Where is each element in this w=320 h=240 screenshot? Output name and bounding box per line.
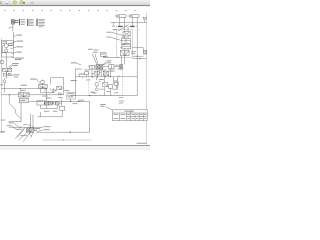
node RB1 j2 <box>140 58 141 59</box>
label V3 top <box>107 31 112 34</box>
gauge G2 <box>95 88 98 91</box>
legend table 1 rows <box>21 19 26 25</box>
divider TB1 <box>67 94 76 96</box>
wire manifold leaders <box>11 123 19 130</box>
wire V2 feeders <box>31 114 33 127</box>
node MV j1 <box>92 76 93 77</box>
label W2 <box>42 95 47 98</box>
label TB1 top <box>64 89 69 92</box>
label MV a <box>78 73 85 76</box>
wire MV riser <box>75 68 77 95</box>
toolbar icon: zoom-out yellow <box>13 1 16 4</box>
valve stack V3 enclosure <box>117 29 133 57</box>
label bank callout 3 <box>93 51 98 54</box>
node V2 j2 <box>30 127 31 128</box>
gauge G1 <box>95 82 99 86</box>
wire leader 5 <box>11 57 15 58</box>
label bank callout 5 <box>107 61 111 64</box>
label PT1 cells row1 <box>114 113 147 116</box>
valve V1 body2 <box>7 68 12 71</box>
label SV1 inner <box>20 99 25 102</box>
label PT1 cells row2 <box>114 117 147 120</box>
wire V2 tails <box>15 127 30 141</box>
label S1 <box>20 134 26 137</box>
valve stack V3 box1 <box>123 32 130 36</box>
valve VX1a <box>45 101 49 105</box>
node bus ticks <box>79 75 119 79</box>
label callout 1 <box>17 34 22 37</box>
label V2 mid <box>35 127 39 130</box>
toolbar icon: open (partial) <box>0 1 2 4</box>
toolbar icon: print gray <box>30 1 33 4</box>
gauge G3 <box>99 70 101 72</box>
valve MV g <box>115 82 119 85</box>
wire left drop <box>9 95 21 119</box>
label W1 <box>30 78 36 81</box>
valve W2 <box>57 86 62 90</box>
label V2 right b <box>44 128 50 131</box>
wire SV1 top <box>1 91 63 122</box>
valve V6 <box>108 85 112 88</box>
label MV e <box>90 91 95 94</box>
node F1 j2 <box>46 88 47 89</box>
label callout 5 <box>15 57 24 60</box>
page bottom edge <box>0 145 150 146</box>
valve P1b <box>9 43 12 46</box>
drawing frame top zone ticks <box>4 9 136 11</box>
valve W3 arrow <box>59 93 62 95</box>
drawing frame left border <box>0 38 2 133</box>
wire V1 leaders <box>8 64 12 69</box>
main block MV dashed enclosure <box>89 70 123 96</box>
toolbar <box>0 0 150 5</box>
node A1 label <box>9 26 11 29</box>
hose bundle H1 <box>112 26 138 28</box>
valve V1 arrows <box>3 68 12 71</box>
valve V3 box2 detail <box>122 38 131 43</box>
wire C1 drops <box>119 17 137 22</box>
valve W1 pilots <box>41 81 44 84</box>
relief valve RV2 <box>95 71 100 75</box>
label MV b <box>71 79 77 82</box>
port block PB1 <box>1 60 4 63</box>
solenoid SV2 <box>109 65 114 69</box>
wire leader 1 <box>13 35 16 37</box>
label V1 pilot <box>14 76 18 79</box>
valve V1 body <box>3 68 8 71</box>
wire V2 leaders right <box>37 127 43 132</box>
wire left link <box>44 89 89 102</box>
label H1 <box>113 28 118 31</box>
wire bank drops <box>92 69 111 77</box>
valve MV f <box>85 72 89 75</box>
label link b <box>73 102 78 105</box>
label F2 <box>115 64 119 67</box>
wire MV bottom bus <box>70 95 137 97</box>
label V2 right a <box>44 125 50 128</box>
port V2 p1 <box>34 129 36 131</box>
valve V1 pilot b <box>8 73 11 75</box>
label manifold callout a <box>9 121 14 124</box>
label PT1 title <box>124 110 134 113</box>
wire stack feed <box>103 56 120 57</box>
node return junction <box>63 139 64 140</box>
label V2 top tags <box>23 123 27 126</box>
toolbar icon: save page <box>5 1 9 5</box>
coupler block RB1 <box>143 50 146 54</box>
legend table 3 rows <box>38 19 45 27</box>
valve V5 <box>103 83 108 87</box>
wire P1 internals <box>1 41 13 58</box>
label note arrow <box>71 61 77 64</box>
valve VX1a hatch <box>45 101 49 105</box>
node V3 ports <box>121 47 122 48</box>
legend table 1 bar <box>19 19 20 25</box>
valve VX1b <box>49 101 53 105</box>
wire VX row <box>44 99 61 106</box>
node RB1 j1 <box>137 56 138 57</box>
filter F1 label <box>21 84 27 87</box>
wire P1 riser <box>12 32 14 46</box>
valve V5 hatch <box>103 83 108 87</box>
label bank callout 1 <box>88 48 93 51</box>
drawing frame right border <box>145 13 147 146</box>
node V2 j3 <box>32 127 33 128</box>
wire line to F1 <box>1 86 47 92</box>
node link j1 <box>70 101 71 102</box>
node VX j2 <box>52 103 53 104</box>
node bus dot1 <box>97 76 98 77</box>
valve stack V3 box2 <box>122 38 131 43</box>
valve VX2 <box>56 101 59 105</box>
parts table PT1 <box>113 110 148 121</box>
label callout 3 <box>17 45 23 48</box>
valve V1b label <box>14 73 20 76</box>
wire leader 4 <box>11 52 16 53</box>
toolbar icon: zoom-in yellow <box>20 1 23 4</box>
relief valve V1 labels <box>12 62 18 65</box>
valve RV3 hatch <box>103 71 108 75</box>
label MV port tags <box>76 37 126 104</box>
label callout 4 <box>17 51 22 54</box>
label link a <box>78 99 84 102</box>
valve V4 box2 hatch <box>96 65 99 70</box>
wire V1b leader <box>12 74 14 77</box>
label MV c <box>99 78 103 81</box>
wire CV1 <box>3 78 5 86</box>
valve RV3 <box>103 71 108 75</box>
label VX top2 <box>58 96 63 99</box>
strainer S1 <box>29 133 34 138</box>
label above table <box>100 103 106 106</box>
wire V3 leaders <box>111 24 129 40</box>
filter F2 <box>120 65 123 70</box>
manifold block MB1 <box>60 106 65 110</box>
valve stack V3 box3 <box>122 44 131 49</box>
test box TB1 <box>67 93 76 99</box>
valve V3 box1 hatch <box>123 32 130 36</box>
wire W1 pilot stub <box>41 79 43 84</box>
wire leader 3 <box>11 47 17 49</box>
label callout 5b <box>15 58 22 61</box>
cylinder C2 <box>128 15 139 18</box>
wire top manifold <box>111 19 147 22</box>
wire G1 <box>96 77 98 88</box>
wire MV f stub <box>86 70 88 77</box>
check valve CV1 <box>3 80 6 83</box>
label callout 2 <box>17 40 23 43</box>
label V3d right <box>131 50 136 53</box>
label V2 left <box>16 128 22 131</box>
cylinder C1 <box>115 15 126 18</box>
wire VX drops <box>40 105 57 109</box>
wire W2 hatch <box>57 86 62 90</box>
wire leader 2 <box>10 41 16 44</box>
check valve CV3 <box>53 102 55 104</box>
wire V1 down <box>1 57 11 79</box>
label bottom-right part number <box>137 142 147 145</box>
valve W1 <box>38 85 47 88</box>
node VX j1 <box>44 103 45 104</box>
wire V2 bus <box>9 126 41 128</box>
valve bank V4 box2 <box>96 65 99 70</box>
label MV d <box>114 80 118 83</box>
legend table 3 bar <box>36 19 37 26</box>
gauge box GB1 <box>100 53 106 57</box>
valve V4 box3 hatch <box>99 65 103 70</box>
label PS1 <box>38 100 43 103</box>
pump P1 circle <box>4 44 8 48</box>
wire MV g stub <box>115 85 117 89</box>
solenoid valve block SV1 <box>18 93 29 103</box>
quick coupler QC1 <box>143 17 146 19</box>
wire bank links <box>88 66 120 68</box>
wire note leader <box>77 63 82 65</box>
wire MB1 drop <box>37 110 62 117</box>
label VX bot1 <box>44 110 49 113</box>
legend table 2 rows <box>29 19 34 26</box>
wire manifold drops <box>114 22 138 26</box>
node MV j3 <box>89 95 90 96</box>
label CV1 <box>0 83 3 86</box>
node left drop j <box>9 94 10 95</box>
wire W1 net <box>41 78 64 95</box>
pressure switch PS1 <box>37 100 44 105</box>
valve P1a <box>3 42 6 44</box>
node link j2 <box>78 101 79 102</box>
node MV dots <box>96 79 104 82</box>
motor M1 circle <box>5 49 8 52</box>
node MV j2 <box>104 76 105 77</box>
node V2 j1 <box>20 127 21 128</box>
label left edge bottom <box>0 130 4 133</box>
filter F2 hatch <box>120 65 123 70</box>
wire MV bus <box>76 27 138 95</box>
label GB1 <box>101 53 105 56</box>
page background <box>0 0 150 150</box>
control valve manifold V2 <box>26 128 33 132</box>
node F1 j1 <box>20 88 21 89</box>
wire manifold stub <box>9 120 21 122</box>
check valve CV2 <box>52 89 55 92</box>
node bus dot2 <box>110 76 111 77</box>
label V3 left <box>106 36 110 39</box>
accumulator A1 <box>11 20 17 25</box>
node bus junction <box>70 132 71 133</box>
wire A1 drop <box>11 24 13 31</box>
valve bank V4 box3 <box>99 65 103 70</box>
valve RV2 hatch <box>95 71 100 75</box>
label manifold callout b <box>7 124 12 127</box>
valve VX1b hatch <box>49 101 53 105</box>
wire V3 column <box>121 27 128 65</box>
valve bank V4 box1 <box>90 65 95 69</box>
wire legend leaders <box>15 21 19 23</box>
wire RB1 links <box>132 48 146 59</box>
label bank callout 4 <box>107 59 112 62</box>
label bank callout 2 <box>94 49 99 52</box>
label RV3 <box>110 70 114 73</box>
solenoid SV2 divider <box>110 65 112 69</box>
valve V3 box3 detail <box>122 46 131 48</box>
pump unit P1 enclosure <box>1 41 13 58</box>
label TB1 <box>68 92 74 95</box>
wire bank leaders <box>92 53 107 67</box>
wire return line <box>43 139 92 141</box>
label edge note <box>1 119 6 122</box>
label VX bot2 <box>53 110 57 113</box>
valve V1 pilot a <box>3 73 6 76</box>
label SV1 top <box>20 89 26 92</box>
wire V5 net <box>105 77 118 96</box>
label VX top1 <box>46 97 51 100</box>
wire W1 leader <box>37 79 40 84</box>
valve cluster V3d <box>120 50 129 55</box>
valve V4 box1 divider <box>91 65 93 69</box>
wire PS1 <box>29 102 40 117</box>
wire tank bus <box>36 101 89 132</box>
legend table 2 bar <box>27 19 28 26</box>
valve VX2 hatch <box>56 101 59 105</box>
